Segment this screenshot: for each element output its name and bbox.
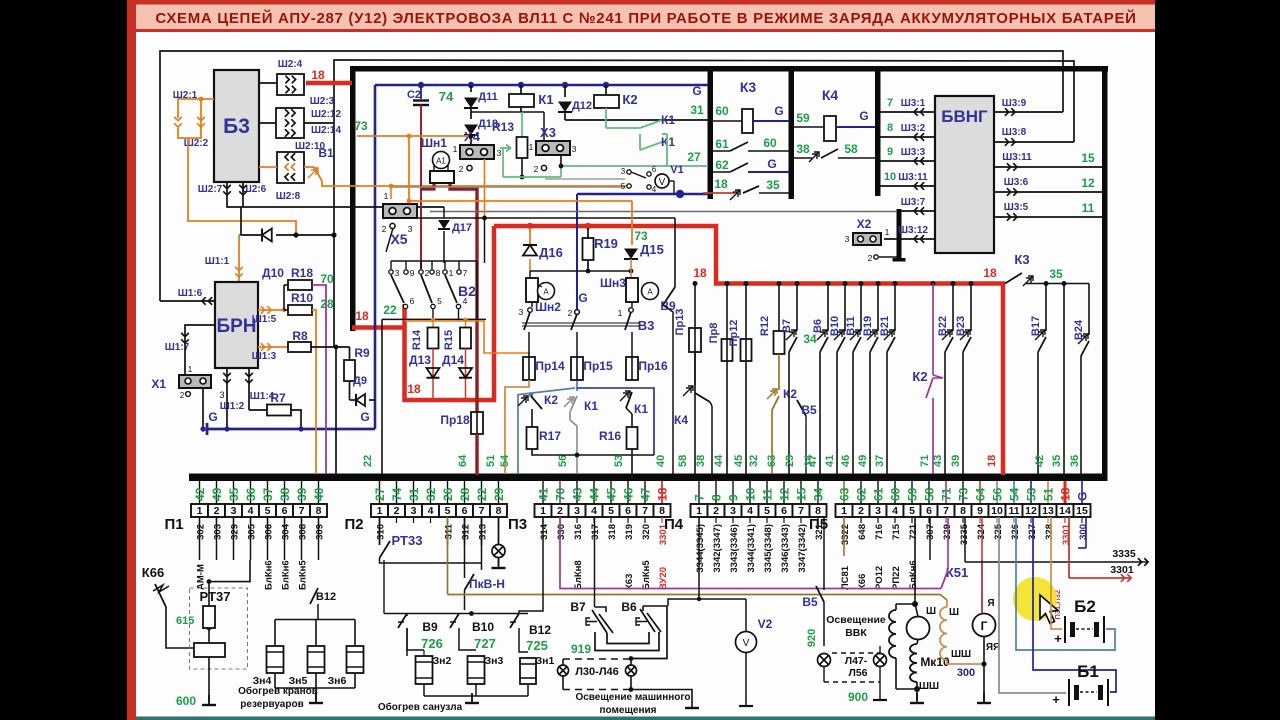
wire crimson C2 down to B2 terminal 2: [420, 105, 422, 269]
svg-text:Д17: Д17: [452, 222, 472, 234]
svg-text:Пр18: Пр18: [440, 413, 470, 427]
contact K1 right: [620, 391, 630, 401]
svg-text:R8: R8: [292, 329, 308, 343]
svg-text:40: 40: [312, 487, 326, 501]
diode D15: [624, 249, 638, 260]
title banner: [136, 0, 1155, 32]
svg-text:К1: К1: [584, 399, 598, 413]
wire navy Shn2 G drop: [576, 194, 578, 309]
svg-text:29: 29: [492, 487, 506, 501]
svg-text:727: 727: [474, 636, 496, 651]
svg-text:2: 2: [425, 268, 430, 278]
svg-text:2: 2: [214, 505, 220, 517]
shunt Shn2 with ammeter: [526, 278, 538, 302]
wire П3 cell1 down: [519, 517, 543, 614]
wire to Sh1:1: [239, 234, 241, 236]
svg-text:49: 49: [857, 455, 869, 467]
wire 35 plain drop: [1063, 284, 1065, 475]
svg-text:Ш3:7: Ш3:7: [901, 197, 926, 208]
svg-text:74: 74: [439, 89, 454, 104]
svg-text:4: 4: [652, 185, 657, 194]
wire diode branch from bottom bus: [240, 207, 242, 235]
BRN Sh1:3 orange to R8: [261, 343, 265, 351]
svg-text:Мк10: Мк10: [920, 655, 950, 669]
svg-text:71: 71: [919, 455, 931, 467]
connector Sh2:10/Sh2:8 box: [277, 152, 304, 183]
wire brown long 311 line: [448, 595, 948, 601]
svg-text:В5: В5: [802, 595, 818, 609]
wire B7 B6 inner U: [607, 632, 649, 644]
wire orange D16 branch: [529, 228, 531, 245]
svg-text:В23: В23: [955, 316, 967, 336]
svg-text:В12: В12: [529, 623, 551, 637]
svg-text:2: 2: [858, 505, 864, 517]
svg-text:Ш2:12: Ш2:12: [311, 109, 342, 120]
resistor R7: [249, 409, 267, 411]
block B3: [214, 70, 259, 182]
svg-text:38: 38: [695, 455, 707, 467]
riser to y207 line with diode D17: [443, 207, 445, 218]
svg-text:8: 8: [496, 505, 502, 517]
svg-text:329: 329: [230, 524, 241, 540]
svg-text:9: 9: [887, 146, 893, 158]
wire orange riser x409: [408, 136, 410, 201]
svg-text:К2: К2: [912, 369, 927, 384]
svg-text:63: 63: [838, 487, 852, 501]
switch B10 column: [844, 284, 846, 332]
svg-text:726: 726: [421, 636, 443, 651]
wire Sh3:8: [994, 141, 1074, 143]
connector Sh2:3/Sh2:12/Sh2:14 box: [276, 108, 304, 138]
svg-text:Ш1:6: Ш1:6: [178, 288, 203, 299]
wire B3 bottom bus: [227, 200, 444, 207]
svg-text:Ш1:2: Ш1:2: [220, 401, 245, 412]
switch B19 column: [877, 284, 879, 332]
svg-text:Пр15: Пр15: [583, 359, 613, 373]
svg-text:СХЕМА ЦЕПЕЙ АПУ-287 (У12) ЭЛЕК: СХЕМА ЦЕПЕЙ АПУ-287 (У12) ЭЛЕКТРОВОЗА ВЛ…: [155, 9, 1136, 27]
svg-text:1: 1: [188, 365, 193, 374]
switch B12 Зн1: [510, 621, 516, 623]
svg-text:Ш1:7: Ш1:7: [165, 342, 190, 353]
bus thick vertical K3-K4: [789, 66, 795, 199]
svg-text:П2: П2: [344, 516, 363, 533]
svg-text:В6: В6: [812, 319, 824, 333]
svg-text:Зн1: Зн1: [536, 655, 555, 667]
svg-text:V2: V2: [758, 617, 773, 631]
svg-text:G: G: [692, 84, 701, 98]
wire orange X4 pin3 drop: [484, 159, 486, 218]
svg-text:35: 35: [227, 487, 241, 501]
wire gray 325 to Б1 plus: [999, 517, 1066, 693]
svg-text:Ш2:4: Ш2:4: [278, 59, 303, 70]
svg-text:37: 37: [874, 455, 886, 467]
wire bottoms D16 R19 D15: [530, 270, 633, 272]
svg-text:БлКн5: БлКн5: [298, 560, 309, 590]
wire B3 to Sh2:4: [259, 82, 277, 84]
svg-text:45: 45: [733, 455, 745, 467]
wire navy vertical to G bus: [374, 85, 377, 429]
wire red 18 main bus: [494, 226, 1003, 475]
svg-text:X1: X1: [151, 377, 166, 391]
contact K1 mid gray: [564, 397, 574, 407]
resistor R14: [428, 328, 439, 349]
svg-text:3: 3: [845, 234, 850, 244]
svg-text:18: 18: [311, 68, 325, 82]
fuse Pr16: [631, 332, 633, 357]
svg-text:П5: П5: [809, 516, 828, 533]
svg-text:Ш3:2: Ш3:2: [901, 123, 926, 134]
svg-text:Д13: Д13: [409, 353, 431, 367]
svg-text:Зн2: Зн2: [433, 655, 452, 667]
wire 26 from R8 down to bus: [311, 346, 350, 348]
svg-text:Освещение: Освещение: [826, 614, 886, 626]
bus thick vertical left: [350, 66, 356, 331]
svg-text:311: 311: [444, 523, 455, 539]
wire navy main horizontal: [375, 84, 708, 87]
wire B9 B10 B12 top feed: [384, 613, 528, 615]
svg-text:А1: А1: [436, 157, 446, 166]
svg-text:Ш1:5: Ш1:5: [252, 314, 277, 325]
svg-text:38: 38: [278, 487, 292, 501]
svg-text:42: 42: [193, 487, 207, 501]
svg-text:А: А: [543, 288, 549, 297]
svg-text:15: 15: [795, 487, 809, 501]
svg-text:К51: К51: [946, 565, 968, 580]
svg-text:28: 28: [320, 297, 334, 311]
svg-text:27: 27: [373, 487, 387, 501]
green arrow to R13: [500, 145, 511, 152]
svg-text:В10: В10: [472, 620, 494, 634]
svg-text:X2: X2: [857, 217, 872, 231]
svg-text:G: G: [208, 410, 217, 424]
svg-text:10: 10: [884, 171, 896, 183]
wire red thin R14 R15 to box bottom: [432, 349, 434, 399]
wire B6 right drop to lamp line: [631, 606, 667, 659]
svg-text:64: 64: [974, 487, 988, 501]
svg-text:Ш3:11: Ш3:11: [1002, 152, 1032, 163]
svg-text:11: 11: [1082, 201, 1095, 215]
svg-text:328: 328: [1044, 524, 1055, 540]
svg-text:4: 4: [248, 505, 254, 517]
svg-text:5: 5: [621, 182, 626, 191]
svg-text:К3: К3: [1014, 252, 1029, 267]
wire Sh3:9: [994, 111, 1063, 113]
svg-text:59: 59: [906, 487, 920, 501]
svg-text:10: 10: [744, 487, 758, 501]
switch B7 column: [796, 284, 798, 332]
switch group B2 terminals: [391, 260, 477, 262]
svg-text:БлКн5: БлКн5: [641, 560, 652, 590]
gray wire V1 switch rows: [391, 186, 625, 188]
svg-text:3343(3346): 3343(3346): [729, 524, 740, 573]
wire maroon Shn1 right lead to Pr18: [450, 184, 477, 412]
wire tan 328 to Б2 plus: [1051, 517, 1062, 629]
svg-text:6: 6: [652, 165, 657, 174]
switch B23 column: [970, 284, 972, 332]
fuse Pr14: [528, 332, 530, 357]
svg-text:3: 3: [497, 148, 502, 158]
svg-text:45: 45: [605, 487, 619, 501]
svg-text:7: 7: [299, 505, 305, 517]
wire navy G bus bottom: [207, 428, 375, 431]
svg-text:4: 4: [892, 505, 898, 517]
svg-text:47: 47: [639, 487, 653, 501]
svg-text:G: G: [360, 410, 369, 424]
wire steel 54 from Pr15: [518, 388, 575, 474]
svg-text:R19: R19: [594, 236, 618, 251]
resistor R19: [587, 228, 589, 238]
wire R17 bottom horizontal: [532, 449, 654, 455]
svg-text:73: 73: [634, 229, 648, 243]
ground 600: [208, 695, 210, 705]
svg-text:58: 58: [923, 487, 937, 501]
diode D16: [523, 245, 537, 256]
svg-text:П1: П1: [164, 516, 183, 533]
svg-text:54: 54: [499, 454, 511, 467]
svg-text:П3: П3: [508, 516, 527, 533]
svg-text:18: 18: [693, 266, 707, 280]
block BRN: [215, 282, 258, 368]
wire Sh3:11 15: [994, 166, 1102, 168]
svg-text:41: 41: [537, 487, 551, 501]
svg-text:К4: К4: [822, 87, 839, 103]
svg-text:3: 3: [395, 268, 400, 278]
svg-text:300: 300: [957, 667, 975, 679]
svg-text:1: 1: [377, 505, 383, 517]
svg-text:39: 39: [295, 487, 309, 501]
svg-text:1: 1: [197, 505, 203, 517]
svg-text:Пр8: Пр8: [708, 323, 720, 344]
svg-text:316: 316: [573, 524, 584, 540]
svg-text:8: 8: [436, 268, 441, 278]
diode D18: [470, 108, 472, 119]
svg-text:1: 1: [453, 144, 458, 154]
wire navy from Pr15 right: [577, 388, 654, 455]
svg-text:РТ33: РТ33: [392, 533, 423, 548]
svg-text:6: 6: [410, 296, 415, 306]
svg-text:помещения: помещения: [600, 705, 657, 716]
switch B10 Зн3: [450, 621, 456, 623]
white schematic sheet: [136, 0, 1155, 720]
wire Pr13 column: [694, 284, 696, 329]
bus thick vertical K4-right: [875, 66, 881, 196]
wire x334 down continuation: [333, 235, 335, 347]
svg-text:Ш3:12: Ш3:12: [898, 225, 929, 236]
svg-text:5: 5: [909, 505, 915, 517]
svg-text:АМ-М: АМ-М: [196, 564, 207, 590]
connector X3: [536, 141, 570, 155]
svg-text:R18: R18: [291, 266, 313, 280]
svg-text:18: 18: [1059, 487, 1073, 501]
svg-text:R7: R7: [270, 391, 286, 405]
svg-text:71: 71: [940, 487, 954, 501]
wire maroon Shn1 left lead: [421, 184, 434, 189]
wire thin frame second: [334, 60, 1074, 235]
navy junction dots on main: [418, 82, 424, 88]
svg-text:R17: R17: [539, 429, 561, 443]
svg-text:БлКн6: БлКн6: [264, 560, 275, 590]
svg-text:Б1: Б1: [1077, 662, 1099, 681]
connector X4: [460, 145, 494, 159]
svg-text:В6: В6: [621, 600, 637, 614]
wire П2 cell stubs: [379, 517, 381, 545]
svg-text:314: 314: [539, 523, 550, 540]
svg-text:Ш: Ш: [949, 607, 959, 618]
svg-text:5: 5: [437, 296, 442, 306]
svg-text:3301: 3301: [1110, 564, 1134, 576]
relay K2 coil: [605, 85, 607, 95]
svg-text:721: 721: [908, 523, 919, 540]
switch B17 column: [1045, 284, 1047, 332]
svg-text:Шн2: Шн2: [535, 300, 561, 314]
svg-text:37: 37: [261, 487, 275, 501]
connector X1: [179, 375, 211, 388]
svg-text:920: 920: [806, 629, 818, 647]
svg-text:11: 11: [761, 488, 775, 501]
svg-text:Ш3:9: Ш3:9: [1002, 98, 1027, 109]
wire purple 330 К51 line: [560, 517, 941, 589]
teal bottom bar: [136, 717, 1155, 720]
svg-text:2: 2: [568, 308, 573, 318]
svg-text:БлКн6: БлКн6: [908, 560, 919, 590]
svg-text:Б2: Б2: [1074, 597, 1096, 616]
svg-text:Д14: Д14: [442, 353, 464, 367]
svg-text:35: 35: [766, 178, 780, 192]
wire orange D15 branch from y201: [631, 201, 633, 245]
svg-text:11: 11: [1008, 505, 1019, 517]
svg-text:+: +: [1054, 631, 1062, 646]
svg-text:615: 615: [176, 615, 194, 627]
wire П5 300 stub: [1085, 517, 1087, 548]
svg-text:2: 2: [382, 224, 387, 234]
svg-text:А: А: [647, 288, 653, 297]
svg-text:G: G: [1076, 492, 1090, 501]
svg-text:Л56: Л56: [848, 667, 867, 679]
svg-text:9: 9: [727, 494, 741, 501]
svg-text:61: 61: [872, 487, 886, 501]
svg-text:64: 64: [457, 454, 469, 467]
svg-text:3: 3: [875, 505, 881, 517]
svg-text:3344(3345): 3344(3345): [695, 524, 706, 573]
svg-text:3335: 3335: [1112, 548, 1136, 560]
svg-text:Обогрев кранов: Обогрев кранов: [238, 685, 318, 697]
svg-text:ЛС81: ЛС81: [840, 565, 851, 590]
svg-text:V: V: [743, 638, 750, 649]
svg-text:В22: В22: [937, 316, 949, 336]
svg-text:К66: К66: [857, 574, 868, 590]
bus thick top horizontal: [350, 66, 1108, 72]
svg-text:7: 7: [798, 505, 804, 517]
svg-text:1: 1: [540, 505, 546, 517]
node terminal 2 Shn2: [575, 310, 580, 315]
svg-text:1: 1: [696, 505, 702, 517]
svg-text:330: 330: [556, 524, 567, 540]
wire X5 pin1 to orange y186: [390, 186, 392, 199]
svg-text:R12: R12: [759, 316, 771, 336]
svg-text:Ш1:1: Ш1:1: [205, 256, 230, 267]
svg-text:309: 309: [315, 524, 326, 540]
svg-text:ШШ: ШШ: [919, 681, 939, 692]
svg-text:ЯЯ: ЯЯ: [986, 642, 1000, 653]
gray long wire y212: [430, 211, 897, 213]
svg-text:7: 7: [887, 97, 893, 109]
svg-text:919: 919: [571, 642, 591, 656]
svg-text:312: 312: [461, 524, 472, 540]
svg-text:БРН: БРН: [216, 316, 256, 337]
svg-text:Зн3: Зн3: [485, 655, 504, 667]
resistor R16: [627, 427, 638, 449]
fuse Pr18: [471, 412, 483, 434]
svg-text:R13: R13: [492, 120, 514, 134]
svg-text:5: 5: [608, 505, 614, 517]
svg-text:49: 49: [210, 487, 224, 501]
svg-text:К2: К2: [544, 393, 558, 407]
svg-text:313: 313: [478, 524, 489, 540]
wire П2 brown 311: [447, 517, 449, 595]
shunt Shn3 with ammeter: [626, 278, 638, 302]
svg-text:3346(3343): 3346(3343): [780, 524, 791, 573]
resistor R9: [349, 347, 351, 360]
svg-text:22: 22: [362, 455, 374, 467]
svg-text:35: 35: [1049, 267, 1063, 281]
svg-text:РП22: РП22: [891, 566, 902, 590]
svg-text:Г: Г: [981, 619, 988, 633]
wire purple П5 329: [947, 517, 949, 560]
svg-text:8: 8: [316, 505, 322, 517]
svg-text:Ш2:14: Ш2:14: [311, 125, 342, 136]
svg-text:7: 7: [943, 505, 949, 517]
svg-text:резервуаров: резервуаров: [240, 699, 303, 710]
svg-text:4: 4: [428, 505, 434, 517]
svg-text:74: 74: [390, 487, 404, 501]
svg-text:ПкВ-Н: ПкВ-Н: [469, 577, 505, 591]
svg-text:3301: 3301: [1061, 523, 1072, 545]
wire B3 to Sh2:3 box: [259, 122, 276, 124]
wire vertical to B9: [674, 218, 676, 287]
svg-text:Д16: Д16: [539, 245, 563, 260]
bus thick vertical right frame: [1102, 66, 1108, 478]
svg-text:К3: К3: [740, 79, 757, 95]
wire X1 to G bus: [202, 388, 204, 429]
switch B5 П4 cell8: [823, 517, 825, 560]
wire Sh3:6 12: [994, 191, 1102, 193]
contact K2 on R12 line: [767, 389, 777, 399]
svg-text:303: 303: [213, 524, 224, 540]
svg-text:В17: В17: [1030, 316, 1042, 336]
lamp on П2 cell8: [498, 517, 500, 544]
svg-text:3342(3347): 3342(3347): [712, 524, 723, 573]
svg-text:2: 2: [713, 505, 719, 517]
wire R12 column: [778, 284, 780, 332]
svg-text:60: 60: [763, 136, 777, 150]
svg-text:G: G: [767, 157, 776, 171]
fuse Pr15: [576, 332, 578, 357]
wire purple K2 column 71: [932, 284, 934, 376]
contact K2 to R17: [518, 396, 528, 406]
svg-text:2: 2: [557, 505, 563, 517]
diode D9: [349, 381, 351, 400]
svg-text:К1: К1: [661, 113, 675, 127]
diode B3 output: [241, 234, 262, 236]
wire X5 blade: [386, 228, 393, 252]
svg-text:60: 60: [715, 104, 729, 118]
svg-text:2: 2: [534, 164, 539, 174]
switch B11 column: [860, 284, 862, 332]
svg-text:R16: R16: [599, 429, 621, 443]
svg-text:32: 32: [424, 487, 438, 501]
svg-text:3: 3: [411, 505, 417, 517]
wire П3 cell4 to B7: [594, 517, 596, 607]
